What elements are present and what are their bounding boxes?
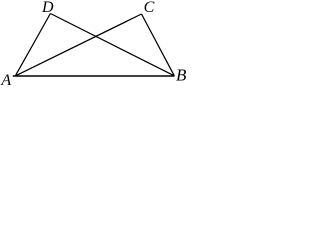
wire: segment AD	[15, 14, 50, 76]
wire: segment CB	[142, 14, 175, 76]
svg-text:B: B	[176, 66, 187, 85]
wire: segment AC	[15, 14, 141, 76]
wire: segment AB (base)	[13, 75, 175, 77]
svg-text:C: C	[144, 0, 155, 16]
svg-text:A: A	[0, 72, 11, 86]
svg-text:D: D	[41, 0, 54, 16]
wire: segment DB	[50, 14, 174, 76]
